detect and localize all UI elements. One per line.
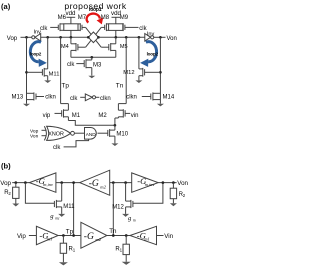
wire Tp vertical b (73, 183, 75, 236)
svg-text:clkn: clkn (45, 94, 56, 100)
svg-text:M6: M6 (58, 15, 67, 21)
wire inverter right to Von (154, 36, 166, 38)
ground M14 (157, 104, 164, 107)
svg-text:M8: M8 (101, 15, 110, 21)
svg-text:M10: M10 (116, 132, 128, 138)
svg-text:vin: vin (131, 113, 139, 119)
node dot M11 drain b (60, 181, 63, 184)
svg-text:Von: Von (30, 134, 39, 140)
node dot Tn vert b (112, 181, 115, 184)
node dot Tn vert join (112, 234, 115, 237)
svg-text:m2: m2 (100, 184, 106, 189)
wire Tn vertical b (112, 183, 114, 236)
svg-text:Vin: Vin (164, 233, 173, 240)
svg-text:M1: M1 (72, 113, 81, 119)
amplifier Gm2 bottom T5 (81, 222, 107, 248)
transistor M13 (27, 92, 45, 103)
AND gate (85, 128, 97, 140)
svg-text:mc: mc (55, 217, 60, 221)
wire M4/M5 common source (71, 56, 116, 58)
node dot rail x47.7 (46, 36, 49, 39)
transistor M11 (27, 68, 48, 77)
wire XNOR to AND (74, 132, 84, 134)
svg-text:m1: m1 (47, 237, 52, 242)
ground M12 (135, 80, 142, 83)
inverter Inv right (145, 34, 154, 42)
svg-text:(a): (a) (1, 2, 11, 11)
svg-text:loop2: loop2 (147, 52, 159, 57)
svg-text:2: 2 (183, 193, 186, 198)
wire tail (68, 121, 115, 126)
svg-text:M7: M7 (78, 15, 87, 21)
node dot rail x138.9 (138, 36, 141, 39)
XNOR gate (42, 126, 75, 140)
transistor M9 (123, 23, 139, 31)
crossover diamond (88, 32, 98, 43)
node dot M11 gate wire b (24, 181, 27, 184)
loop1 red arrow (87, 14, 104, 25)
node dot M11 gate (25, 71, 28, 74)
transistor M6 (50, 23, 64, 31)
svg-text:m: m (133, 219, 136, 223)
wire loop2 right outer vertical (159, 37, 161, 99)
svg-text:m2: m2 (95, 237, 101, 242)
wire T3 to Von (158, 182, 176, 184)
node dot M12 gate wire b (162, 181, 165, 184)
transistor M6/M7 shared box (64, 24, 78, 31)
node dot rail x60.6 (59, 36, 62, 39)
svg-text:Inv: Inv (147, 31, 155, 37)
svg-text:g: g (50, 213, 54, 220)
node dot rail x126.2 (125, 36, 128, 39)
transistor M8/M9 shared box (109, 24, 123, 31)
svg-text:clkn: clkn (100, 96, 111, 102)
svg-text:M3: M3 (93, 63, 102, 69)
ground R2 left (12, 204, 19, 207)
node dot R1 right (125, 234, 128, 237)
node dot diamond right (97, 36, 100, 39)
node dot Tp vert b (72, 181, 75, 184)
node dot R2 left (14, 181, 17, 184)
wire M11 drain vertical (47, 37, 49, 69)
svg-text:m1: m1 (144, 237, 149, 242)
svg-text:Vop: Vop (7, 36, 18, 42)
ground R2 right (170, 203, 177, 206)
amplifier Gm2 top T2 (80, 170, 110, 195)
node dot Tp vert join (72, 234, 75, 237)
ground M11 b (58, 214, 65, 217)
wire M12 drain vertical (138, 37, 140, 69)
transistor M12 (139, 68, 161, 77)
svg-text:vdd: vdd (66, 10, 77, 17)
svg-text:AND: AND (86, 132, 97, 137)
wire Tp node b (58, 235, 81, 237)
transistor M2 (115, 104, 130, 126)
vdd right symbol (112, 17, 121, 24)
svg-text:clk: clk (40, 26, 48, 32)
svg-text:M11: M11 (49, 71, 60, 77)
wire Vip to T4 (29, 235, 37, 237)
resistor R2 right (170, 183, 176, 204)
svg-text:(b): (b) (1, 161, 11, 170)
wire T6 to Vin (157, 235, 164, 237)
wire loop2 left outer vertical (26, 37, 28, 99)
svg-text:clk: clk (70, 96, 78, 102)
svg-text:clk: clk (67, 62, 75, 68)
node dot rail x115.8 (114, 36, 117, 39)
svg-text:clk: clk (53, 145, 61, 151)
svg-text:1: 1 (120, 248, 123, 253)
svg-text:loop1: loop1 (89, 7, 102, 13)
resistor R2 left (13, 183, 19, 204)
transistor M3 (76, 57, 92, 75)
amplifier Gminv left T1 (29, 173, 56, 192)
amplifier Gm1 right T6 (130, 226, 157, 244)
svg-text:Von: Von (167, 36, 177, 42)
node dot R1 left (62, 234, 65, 237)
svg-text:Tn: Tn (109, 228, 117, 235)
wire vdd box left to rail (70, 30, 72, 37)
ground M11 (44, 80, 51, 83)
resistor R1 right (123, 236, 129, 262)
amplifier Gm1 left T4 (36, 226, 58, 244)
svg-text:Vop: Vop (30, 128, 39, 134)
svg-text:M4: M4 (61, 44, 69, 50)
svg-text:Tn: Tn (116, 82, 124, 89)
transistor M1 (55, 104, 69, 121)
wire M12 source (138, 76, 140, 81)
loop2 right blue arrow (140, 42, 156, 67)
ground M10 (111, 143, 118, 146)
inverter Inv left (32, 34, 41, 42)
wire M11 source (47, 76, 49, 81)
node dot tail top (90, 56, 93, 59)
node dot diamond left (87, 36, 90, 39)
wire Vop to T1 (12, 182, 29, 184)
ground M3 (88, 76, 95, 79)
svg-text:vip: vip (43, 113, 51, 119)
node dot M12 drain b (124, 181, 127, 184)
resistor R1 left (60, 236, 66, 263)
node dot tail (114, 124, 117, 127)
wire diamond right rail (99, 36, 145, 38)
svg-text:M9: M9 (120, 15, 129, 21)
transistor M11 b (54, 183, 61, 214)
wire vdd box right to rail (115, 30, 117, 37)
svg-text:M12: M12 (123, 70, 134, 76)
cross-coupling wires X (86, 27, 102, 47)
svg-text:M11: M11 (63, 204, 75, 210)
node dot rail x70.9 (70, 36, 73, 39)
node dot M12 gate (159, 71, 162, 74)
svg-text:-G: -G (89, 179, 99, 189)
loop2 left blue arrow (30, 42, 46, 67)
svg-text:Vip: Vip (17, 233, 26, 240)
node dot R2 right (172, 181, 175, 184)
node dot rail x160.4 (159, 36, 162, 39)
svg-text:M12: M12 (112, 205, 124, 211)
svg-text:Tp: Tp (62, 82, 70, 89)
transistor M12 b (126, 183, 133, 214)
ground M13 (23, 104, 30, 107)
wire M12 gate b (133, 183, 163, 204)
wire inverter to diamond left rail (41, 36, 89, 38)
ground M12 b (122, 214, 129, 217)
svg-text:M14: M14 (163, 94, 175, 100)
svg-text:M13: M13 (12, 94, 24, 100)
svg-text:g: g (128, 215, 132, 222)
svg-text:Von: Von (177, 180, 188, 187)
svg-text:Vop: Vop (0, 180, 11, 187)
wire Tp vertical (60, 37, 62, 103)
transistor M5 (101, 37, 116, 57)
svg-text:clkn: clkn (126, 94, 137, 100)
transistor M8 (101, 23, 108, 31)
transistor M14 (142, 92, 161, 103)
amplifier Gminv right T3 (132, 173, 159, 192)
vdd left symbol (67, 17, 76, 24)
transistor M10 (98, 125, 115, 143)
svg-text:Tp: Tp (66, 229, 74, 236)
ground R1 right (122, 262, 131, 265)
transistor M4 (71, 37, 86, 57)
svg-text:1: 1 (73, 247, 76, 252)
svg-text:2: 2 (8, 191, 11, 196)
svg-text:M2: M2 (98, 113, 107, 119)
svg-text:XNOR: XNOR (48, 132, 64, 138)
clk to clkn inverter middle (80, 94, 99, 101)
wire Tn vertical (125, 37, 127, 103)
ground R1 left (59, 262, 68, 265)
wire node B (110, 182, 132, 184)
node dot rail x26.5 (25, 36, 28, 39)
wire Vop to inverter (21, 36, 32, 38)
svg-text:loop2: loop2 (30, 52, 42, 57)
wire node A (56, 182, 80, 184)
wire clk to gates (64, 139, 89, 147)
wire M11 gate b (25, 183, 54, 204)
wire Tn node b (107, 235, 130, 237)
svg-text:-G: -G (84, 232, 94, 242)
svg-text:Inv: Inv (34, 30, 42, 36)
transistor M7 (78, 23, 86, 31)
